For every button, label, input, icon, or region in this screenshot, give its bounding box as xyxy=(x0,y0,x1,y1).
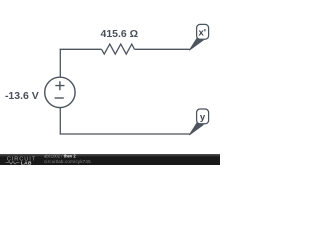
terminal flag y box xyxy=(197,109,209,124)
svg-text:x': x' xyxy=(199,27,207,38)
wire: bottom rail from corner to terminal y tail xyxy=(60,133,190,135)
svg-text:-13.6 V: -13.6 V xyxy=(5,90,39,102)
terminal flag x' tail xyxy=(189,38,203,50)
voltage source V1 circle xyxy=(45,77,75,107)
watermark logo resistor squiggle xyxy=(6,161,20,164)
voltage source V1 minus sign xyxy=(55,97,64,99)
wire: top rail from resistor right lead to terminal x' tail xyxy=(135,48,190,50)
resistor R1 zigzag body xyxy=(102,44,135,54)
svg-text:LAB: LAB xyxy=(21,160,32,165)
wire: top-left vertical from source top to top rail xyxy=(59,49,61,77)
svg-text:abc1002 / thev 2: abc1002 / thev 2 xyxy=(44,154,76,159)
svg-text:circuitlab.com/cyk745: circuitlab.com/cyk745 xyxy=(44,159,91,164)
svg-text:415.6 Ω: 415.6 Ω xyxy=(100,28,138,40)
wire: bottom-left vertical from source bottom to bottom rail xyxy=(59,107,61,134)
terminal flag x' box xyxy=(197,24,209,39)
terminal flag y tail xyxy=(189,123,203,135)
wire: top rail from corner to resistor left lead xyxy=(60,48,102,50)
svg-text:y: y xyxy=(200,112,206,123)
voltage source V1 plus sign xyxy=(55,81,64,90)
